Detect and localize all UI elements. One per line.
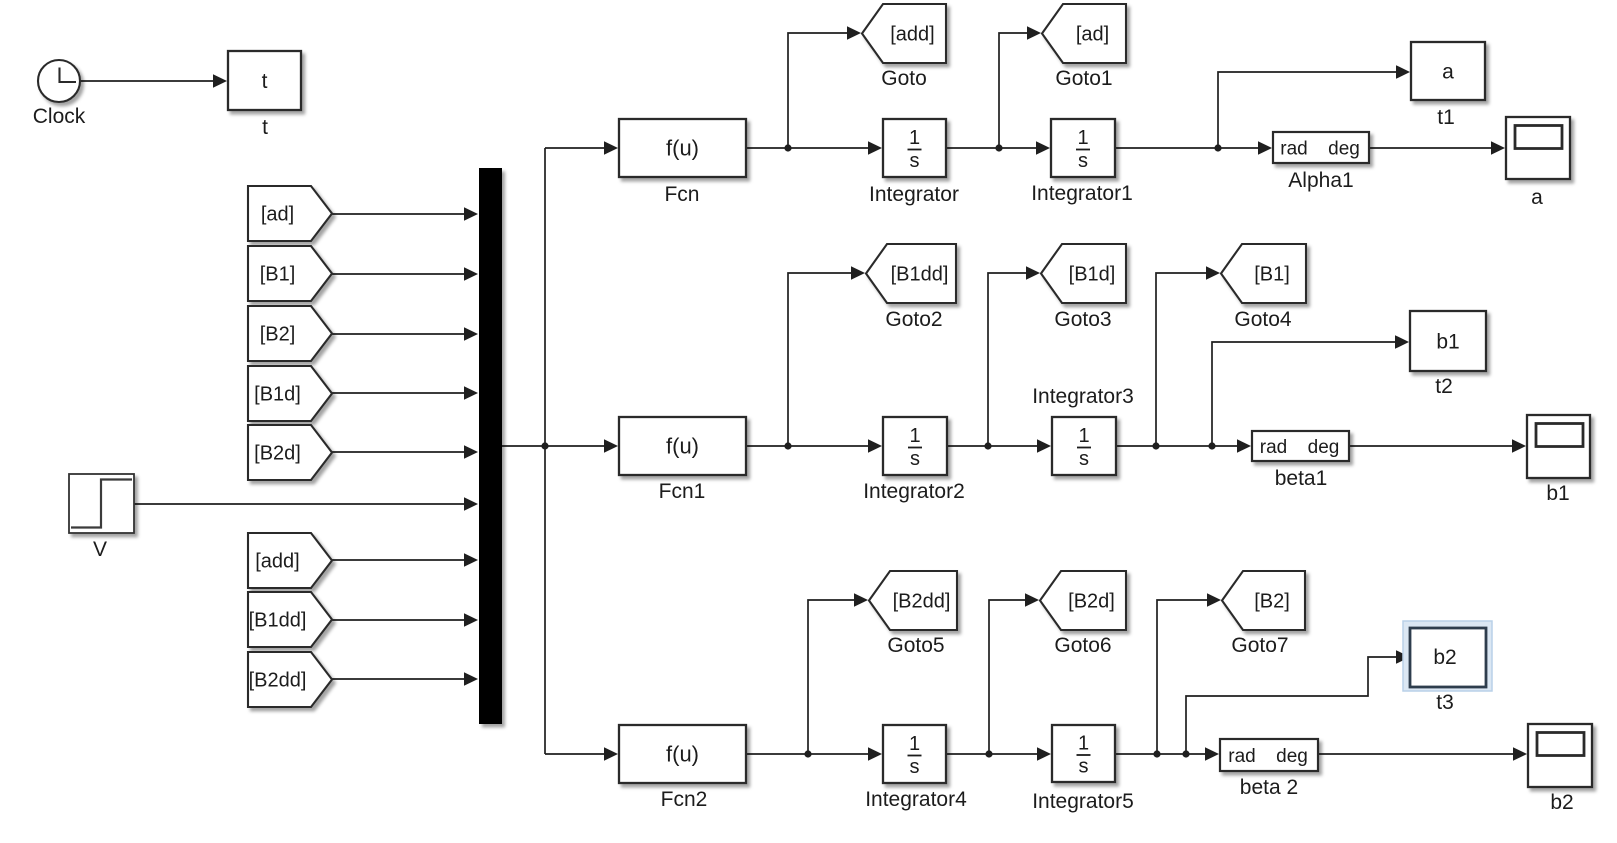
From block [add] [248, 533, 332, 588]
wire [B2dd] to Mux [332, 678, 466, 680]
svg-text:rad: rad [1260, 437, 1287, 458]
svg-text:Fcn: Fcn [664, 183, 699, 206]
Fcn1 block [619, 417, 746, 475]
svg-text:1: 1 [1078, 733, 1089, 755]
svg-text:[B2]: [B2] [260, 324, 296, 346]
arrowhead into Goto1 [1027, 26, 1041, 40]
svg-text:Goto4: Goto4 [1234, 308, 1292, 331]
arrowhead into Alpha1 [1258, 141, 1272, 155]
arrowhead into t3 [1396, 650, 1410, 664]
arrowhead into beta1 [1237, 439, 1251, 453]
junction Fcn output [784, 144, 791, 151]
arrowhead into Mux [464, 553, 478, 567]
svg-text:[B2dd]: [B2dd] [249, 670, 307, 692]
svg-text:[ad]: [ad] [261, 204, 294, 226]
svg-text:V: V [93, 538, 107, 561]
arrowhead into Goto6 [1025, 593, 1039, 607]
junction Integrator5 output A [1153, 750, 1160, 757]
wire Integrator5 to beta2 [1115, 753, 1207, 755]
svg-text:Goto5: Goto5 [887, 634, 944, 657]
svg-text:[B1d]: [B1d] [1069, 264, 1116, 286]
wire Integrator to Integrator1 [946, 147, 1038, 149]
wire Integrator2 to Integrator3 [947, 445, 1039, 447]
svg-text:a: a [1531, 186, 1543, 209]
arrowhead into Mux [464, 672, 478, 686]
svg-text:1: 1 [909, 425, 920, 447]
arrowhead into Mux [464, 207, 478, 221]
svg-text:1: 1 [1078, 425, 1089, 447]
svg-text:[B2dd]: [B2dd] [893, 591, 951, 613]
svg-text:s: s [1079, 756, 1089, 778]
wire branch up to Goto7 [1157, 600, 1209, 754]
wire branch up to Goto5 [808, 600, 856, 754]
svg-text:1: 1 [1077, 127, 1088, 149]
svg-text:rad: rad [1228, 746, 1255, 767]
Scope b2 [1528, 724, 1592, 787]
wire branch up to Goto3 [988, 273, 1028, 446]
junction Integrator output [995, 144, 1002, 151]
Goto6 block [B2d] [1040, 571, 1126, 630]
wire branch up to Goto1 [999, 33, 1029, 148]
wire beta 2 to Scope b2 [1318, 753, 1515, 755]
arrowhead into Goto4 [1206, 266, 1220, 280]
arrowhead into t2 [1395, 335, 1409, 349]
svg-text:b1: b1 [1546, 482, 1569, 505]
svg-text:[B1d]: [B1d] [254, 384, 301, 406]
arrowhead into Mux [464, 386, 478, 400]
Integrator block [883, 119, 946, 177]
svg-text:a: a [1442, 60, 1454, 83]
svg-text:s: s [910, 448, 920, 470]
t1 To-Workspace block [1411, 42, 1485, 100]
wire [B1] to Mux [332, 273, 466, 275]
wire Integrator1 to Alpha1 [1115, 147, 1259, 149]
Goto4 block [B1] [1221, 244, 1306, 303]
arrowhead into Mux [464, 445, 478, 459]
wire trunk to Fcn [545, 147, 605, 149]
wire Alpha1 to Scope a [1369, 147, 1493, 149]
arrowhead into t [213, 74, 227, 88]
svg-text:1: 1 [909, 127, 920, 149]
wire trunk to Fcn1 [545, 445, 605, 447]
arrowhead into Scope a [1491, 141, 1505, 155]
svg-text:Alpha1: Alpha1 [1288, 169, 1353, 192]
junction Fcn2 output [804, 750, 811, 757]
wire branch up to Goto4 [1156, 273, 1208, 446]
Alpha1 rad-to-deg block [1273, 132, 1369, 163]
arrowhead into Scope b2 [1513, 747, 1527, 761]
svg-text:s: s [910, 756, 920, 778]
arrowhead into Goto7 [1207, 593, 1221, 607]
wire branch up to t3 [1186, 657, 1397, 754]
svg-text:beta1: beta1 [1275, 467, 1328, 490]
Integrator4 block [883, 725, 946, 783]
Integrator1 block [1051, 119, 1115, 177]
svg-text:deg: deg [1308, 437, 1340, 458]
svg-text:f(u): f(u) [666, 742, 699, 767]
arrowhead into Mux [464, 327, 478, 341]
t2 To-Workspace block [1410, 311, 1486, 371]
svg-text:s: s [1078, 150, 1088, 172]
junction Integrator2 output [984, 442, 991, 449]
svg-text:Goto: Goto [881, 67, 927, 90]
From block [B2] [248, 306, 332, 361]
svg-text:Fcn2: Fcn2 [661, 788, 708, 811]
wire [ad] to Mux [332, 213, 466, 215]
From block [ad] [248, 186, 332, 241]
svg-text:b1: b1 [1436, 330, 1459, 353]
svg-text:Goto2: Goto2 [885, 308, 942, 331]
Goto7 block [B2] [1222, 571, 1305, 630]
Goto1 block [ad] [1042, 4, 1126, 63]
arrowhead into Mux [464, 267, 478, 281]
arrowhead into Fcn1 [604, 439, 618, 453]
beta 2 rad-to-deg block [1220, 739, 1318, 771]
svg-text:[ad]: [ad] [1076, 24, 1109, 46]
svg-text:Clock: Clock [33, 105, 86, 128]
wire Integrator4 to Integrator5 [946, 753, 1039, 755]
svg-text:[B1dd]: [B1dd] [249, 610, 307, 632]
wire branch up to t2 [1212, 342, 1396, 446]
Goto2 block [B1dd] [866, 244, 956, 303]
wire Fcn2 to Integrator4 [746, 753, 870, 755]
svg-text:t3: t3 [1436, 691, 1454, 714]
svg-text:f(u): f(u) [666, 434, 699, 459]
arrowhead into beta 2 [1205, 747, 1219, 761]
arrowhead into Scope b1 [1512, 439, 1526, 453]
Fcn2 block [619, 725, 746, 783]
svg-text:rad: rad [1280, 139, 1307, 160]
svg-text:[add]: [add] [255, 551, 299, 573]
From block [B2d] [248, 425, 332, 480]
arrowhead into Integrator3 [1037, 439, 1051, 453]
junction Integrator5 output B [1182, 750, 1189, 757]
wire beta1 to Scope b1 [1349, 445, 1514, 447]
arrowhead into Integrator4 [868, 747, 882, 761]
arrowhead into Integrator5 [1037, 747, 1051, 761]
svg-text:t: t [262, 70, 268, 93]
svg-text:[B2d]: [B2d] [1068, 591, 1115, 613]
svg-text:t: t [262, 116, 268, 139]
To Workspace block t [228, 51, 301, 110]
svg-text:[B1]: [B1] [260, 264, 296, 286]
Goto5 block [B2dd] [869, 571, 957, 630]
svg-text:Goto7: Goto7 [1231, 634, 1288, 657]
svg-text:Integrator4: Integrator4 [865, 788, 967, 811]
svg-text:[B2d]: [B2d] [254, 443, 301, 465]
svg-text:[B1dd]: [B1dd] [891, 264, 949, 286]
Goto3 block [B1d] [1041, 244, 1126, 303]
wire branch up to Goto6 [989, 600, 1027, 754]
arrowhead into Integrator1 [1036, 141, 1050, 155]
Mux bar [479, 168, 502, 724]
wire branch up to Goto2 [788, 273, 853, 446]
Scope b1 [1527, 415, 1590, 478]
arrowhead into Goto2 [851, 266, 865, 280]
svg-text:[B1]: [B1] [1254, 264, 1290, 286]
arrowhead into Fcn [604, 141, 618, 155]
svg-text:[B2]: [B2] [1254, 591, 1290, 613]
Integrator2 block [883, 417, 947, 475]
svg-text:b2: b2 [1550, 791, 1573, 814]
wire [B1dd] to Mux [332, 619, 466, 621]
arrowhead into Mux [464, 497, 478, 511]
V step source block [69, 474, 134, 533]
svg-text:Integrator: Integrator [869, 183, 959, 206]
svg-text:t1: t1 [1437, 106, 1455, 129]
svg-text:Integrator3: Integrator3 [1032, 385, 1134, 408]
svg-text:t2: t2 [1435, 375, 1453, 398]
wire trunk vertical [544, 148, 546, 754]
svg-text:Integrator2: Integrator2 [863, 480, 965, 503]
svg-text:Integrator1: Integrator1 [1031, 182, 1133, 205]
svg-text:Goto1: Goto1 [1055, 67, 1112, 90]
arrowhead into Mux [464, 613, 478, 627]
From block [B1] [248, 246, 332, 301]
arrowhead into Goto5 [854, 593, 868, 607]
svg-text:Integrator5: Integrator5 [1032, 790, 1134, 813]
wire V to Mux [134, 503, 466, 505]
wire Clock to t [81, 80, 215, 82]
Goto block [add] [862, 4, 946, 63]
junction Integrator4 output [985, 750, 992, 757]
svg-text:Goto6: Goto6 [1054, 634, 1111, 657]
From block [B1d] [248, 366, 332, 421]
arrowhead into Fcn2 [604, 747, 618, 761]
Integrator3 block [1052, 417, 1116, 475]
arrowhead into Integrator2 [868, 439, 882, 453]
svg-text:b2: b2 [1433, 646, 1456, 669]
junction Integrator3 output A [1152, 442, 1159, 449]
wire [add] to Mux [332, 559, 466, 561]
Clock source block [38, 60, 80, 102]
Scope a [1506, 117, 1570, 179]
junction Fcn1 output [784, 442, 791, 449]
junction Integrator1 output [1214, 144, 1221, 151]
wire trunk to Fcn2 [545, 753, 605, 755]
svg-text:f(u): f(u) [666, 136, 699, 161]
svg-text:[add]: [add] [890, 24, 934, 46]
wire Integrator3 to beta1 [1116, 445, 1239, 447]
svg-text:s: s [1079, 448, 1089, 470]
t3 To-Workspace block (selected) [1403, 621, 1492, 691]
svg-text:deg: deg [1276, 746, 1308, 767]
svg-text:Fcn1: Fcn1 [659, 480, 706, 503]
arrowhead into Goto3 [1026, 266, 1040, 280]
arrowhead into Integrator [868, 141, 882, 155]
wire [B1d] to Mux [332, 392, 466, 394]
junction trunk branch [541, 442, 548, 449]
wire Fcn1 to Integrator2 [746, 445, 870, 447]
Fcn block [619, 119, 746, 177]
Integrator5 block [1052, 725, 1115, 782]
beta1 rad-to-deg block [1252, 431, 1349, 461]
wire [B2] to Mux [332, 333, 466, 335]
From block [B2dd] [248, 652, 332, 707]
arrowhead into t1 [1396, 65, 1410, 79]
junction Integrator3 output B [1208, 442, 1215, 449]
arrowhead into Goto [847, 26, 861, 40]
From block [B1dd] [248, 592, 332, 647]
wire branch up to t1 [1218, 72, 1397, 148]
wire Fcn to Integrator [746, 147, 870, 149]
wire [B2d] to Mux [332, 451, 466, 453]
svg-text:beta 2: beta 2 [1240, 776, 1298, 799]
svg-text:s: s [910, 150, 920, 172]
wire branch up to Goto [788, 33, 849, 148]
svg-text:1: 1 [909, 733, 920, 755]
wire Mux output trunk [502, 445, 545, 447]
svg-text:deg: deg [1328, 139, 1360, 160]
svg-text:Goto3: Goto3 [1054, 308, 1111, 331]
